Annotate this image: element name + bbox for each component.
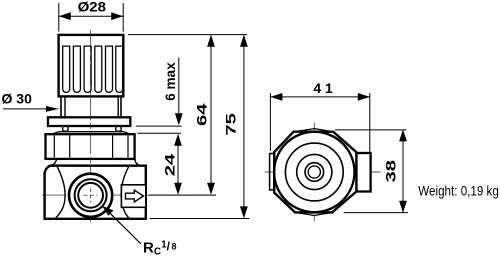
flow direction arrow (126, 190, 144, 202)
centerline horizontal (left view) (42, 194, 216, 196)
tab below flange right (116, 126, 121, 131)
port boss outer circle (69, 174, 112, 217)
svg-text:Ø28: Ø28 (78, 0, 107, 15)
svg-text:4 1: 4 1 (313, 80, 333, 96)
body shoulder curve right (135, 160, 141, 166)
svg-text:24: 24 (162, 153, 178, 176)
centerline horizontal (right view) (265, 171, 381, 173)
lock ring (46, 134, 135, 159)
body waist curve left (55, 167, 65, 219)
tab below flange left (63, 126, 68, 131)
dim 38 extension lines (335, 130, 408, 213)
octagon body silhouette (274, 132, 356, 213)
port thread circle (75, 179, 107, 211)
port block right (356, 153, 370, 192)
port bore circle (78, 183, 103, 208)
svg-text:38: 38 (382, 160, 398, 183)
knob knurl slot 3 (84, 46, 91, 92)
body waist curve right (121, 167, 129, 219)
svg-text:Ø 30: Ø 30 (2, 91, 33, 107)
dim 6max line (178, 58, 180, 124)
centerline vertical (left view) (90, 30, 92, 225)
knob outline (59, 35, 124, 97)
svg-text:Weight: 0,19 kg: Weight: 0,19 kg (418, 182, 499, 198)
extension line ring top (137, 132, 181, 134)
knob neck left outer (60, 98, 62, 118)
knob circle 3 (297, 154, 332, 189)
knob neck right inner (117, 98, 119, 118)
band above lock ring (52, 132, 131, 135)
centerline dashes inside bore (84, 188, 98, 203)
knob knurl slot 5 (106, 46, 113, 92)
dim Ø30 leader (3, 108, 48, 110)
top extension line (128, 34, 247, 36)
dim 41 extension lines (270, 93, 369, 152)
svg-text:6 max: 6 max (162, 62, 178, 101)
dim 38 line (402, 131, 404, 212)
flange (collar) (48, 117, 130, 126)
knob neck right outer (120, 98, 122, 118)
Rc leader line (108, 211, 141, 244)
dim Ø28 arrowheads (59, 12, 123, 20)
knob knurl slot 2 (73, 46, 80, 92)
dim Ø28 line (59, 15, 123, 17)
body outline (45, 166, 146, 219)
lock ring facet lines (54, 135, 128, 157)
knob neck left inner (64, 98, 66, 118)
knob knurl slot 1 (63, 46, 70, 92)
dim Ø28 extension lines (59, 3, 123, 32)
knob circle 4 (305, 163, 324, 182)
svg-text:75: 75 (223, 113, 239, 136)
knob knurl slot 6 (116, 46, 123, 92)
knob knurl slot 4 (95, 46, 102, 92)
bottom extension line (150, 218, 250, 220)
dim 64 line (210, 36, 212, 194)
dim 41 line (270, 96, 369, 98)
body shoulder curve left (51, 160, 57, 166)
svg-text:64: 64 (194, 103, 210, 126)
top gable tabs (294, 129, 334, 132)
knob circle 2 (285, 143, 343, 201)
port face rectangle right (121, 185, 145, 208)
dim 24 line (177, 135, 179, 193)
bottom gable tabs (295, 212, 332, 215)
knob circle 5 (308, 166, 320, 178)
left clamp tab (270, 154, 275, 190)
knob circle outer (274, 132, 354, 212)
extension line mid (center line ext) (148, 194, 216, 196)
dim 75 line (243, 36, 245, 218)
extension line flange bottom (136, 125, 182, 127)
centerline vertical (right view) (313, 123, 315, 222)
